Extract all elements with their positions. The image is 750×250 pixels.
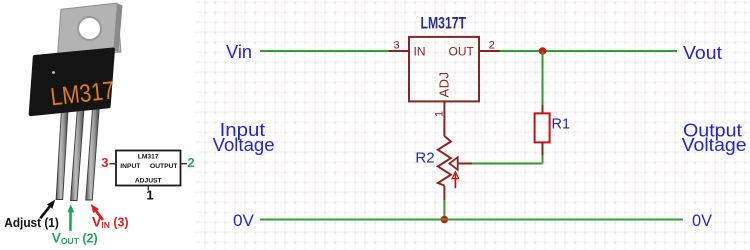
pinout pin 1 lead line xyxy=(147,186,149,191)
junction node ground xyxy=(441,216,449,224)
black arrow to Adjust leg xyxy=(40,207,49,219)
R2 adjustment arrow xyxy=(454,174,456,189)
red arrow to Vin leg xyxy=(96,211,103,220)
leg 2 (Vout) xyxy=(71,102,85,201)
svg-text:LM317: LM317 xyxy=(138,153,159,160)
wire Vin to regulator xyxy=(260,50,389,52)
TO-220 tab mounting hole xyxy=(78,17,101,40)
pin 2 stub OUT xyxy=(479,50,500,52)
TO-220 metal tab top face xyxy=(58,3,122,56)
svg-text:INPUT: INPUT xyxy=(120,163,141,170)
svg-text:Voltage: Voltage xyxy=(682,135,747,155)
svg-text:Voltage: Voltage xyxy=(213,135,275,155)
resistor R1 body xyxy=(535,113,550,142)
wire OUT to Vout xyxy=(500,50,677,52)
0V rail wire xyxy=(260,219,683,221)
wire R1 to R2 wiper xyxy=(542,155,544,164)
svg-text:1: 1 xyxy=(434,111,446,117)
svg-text:2: 2 xyxy=(489,40,495,52)
ADJ pin 1 stub down xyxy=(443,102,445,137)
svg-text:0V: 0V xyxy=(233,211,255,230)
svg-text:2: 2 xyxy=(188,155,195,170)
svg-text:Adjust (1): Adjust (1) xyxy=(4,216,59,230)
R2 bottom stub xyxy=(443,186,445,201)
pinout pin 2 lead line xyxy=(181,163,188,165)
pinout mini-diagram box xyxy=(116,151,181,186)
R1 top pin stub xyxy=(542,105,544,113)
wire R2 to 0V rail xyxy=(443,200,445,220)
wire junction down to R1 xyxy=(542,51,544,105)
svg-text:0V: 0V xyxy=(692,211,713,230)
green arrow to Vout leg xyxy=(69,212,72,231)
body specular dot xyxy=(52,71,55,74)
TO-220 metal tab right side face xyxy=(114,3,123,52)
svg-text:1: 1 xyxy=(146,187,153,202)
pin 3 stub IN xyxy=(389,50,409,52)
R2 wiper triangle xyxy=(450,157,458,170)
svg-text:3: 3 xyxy=(101,155,108,170)
svg-text:Vin: Vin xyxy=(226,42,252,62)
svg-text:3: 3 xyxy=(394,40,400,52)
leg 3 (Vin) xyxy=(86,101,100,200)
regulator U1 box LM317T xyxy=(409,37,479,102)
svg-text:OUTPUT: OUTPUT xyxy=(150,163,178,170)
pinout pin 3 lead line xyxy=(110,163,117,165)
svg-text:LM317T: LM317T xyxy=(421,14,467,33)
potentiometer R2 zigzag xyxy=(438,136,451,186)
svg-text:VIN (3): VIN (3) xyxy=(92,214,129,231)
svg-text:R2: R2 xyxy=(415,150,434,167)
svg-text:ADJUST: ADJUST xyxy=(135,177,163,184)
wiper lead xyxy=(458,163,472,165)
svg-text:ADJ: ADJ xyxy=(437,71,452,97)
junction node output xyxy=(539,47,547,55)
svg-text:R1: R1 xyxy=(552,117,571,133)
svg-text:IN: IN xyxy=(414,44,426,58)
svg-text:OUT: OUT xyxy=(449,44,475,58)
TO-220 legs: leg 1 (Adjust) xyxy=(56,104,68,200)
TO-220 black plastic body xyxy=(31,50,113,115)
R1 bottom pin stub xyxy=(542,142,544,155)
svg-text:Vout: Vout xyxy=(683,43,722,63)
